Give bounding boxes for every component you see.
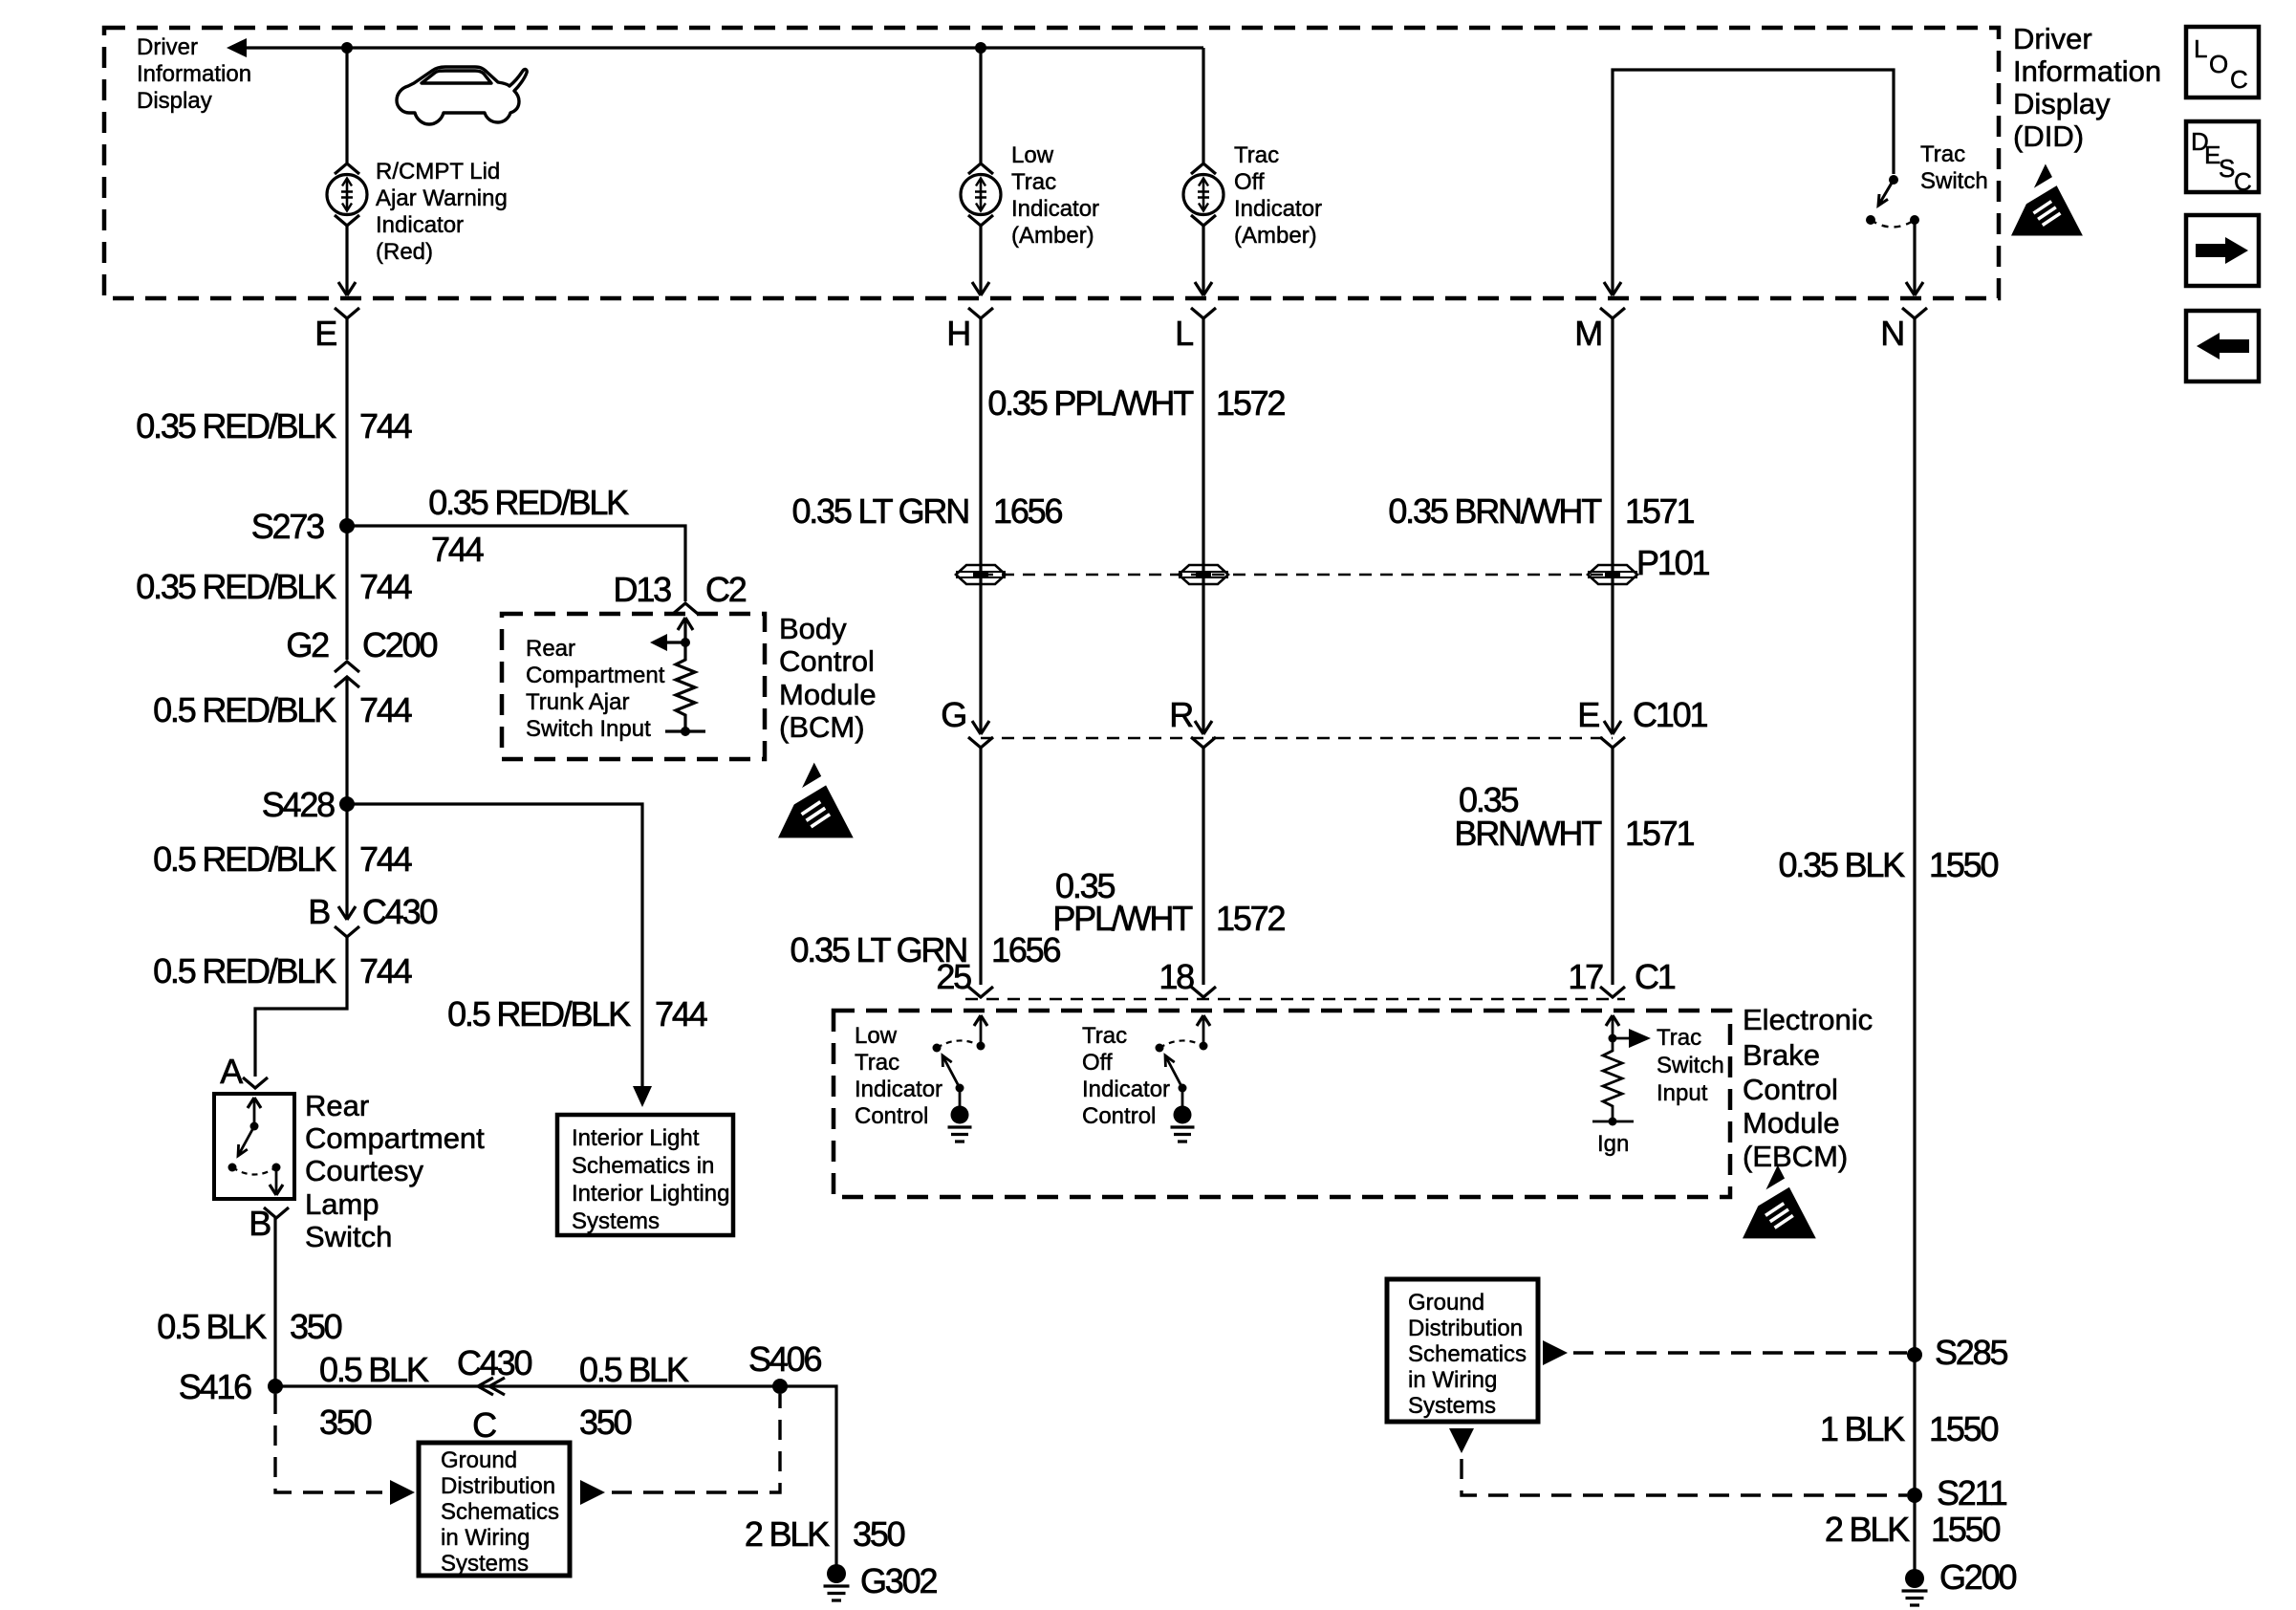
svg-text:744: 744 [359,839,412,879]
svg-text:Systems: Systems [572,1208,660,1234]
svg-text:L: L [1175,314,1193,353]
svg-text:Low: Low [1011,142,1054,168]
indicator lamp R/CMPT Lid Ajar Warning Indicator (Red) [327,175,367,215]
wire: indicator to DID box bottom [345,226,348,295]
svg-text:Control: Control [855,1103,928,1129]
svg-text:744: 744 [359,406,412,446]
svg-text:Lamp: Lamp [305,1187,379,1221]
label 0.35 RED/BLK 744 (branch) [428,483,629,569]
label Trac Switch Input [1657,1025,1724,1106]
splice S416 [268,1379,283,1394]
label 0.35 LT GRN 1656 [791,491,1062,531]
svg-text:Interior Light: Interior Light [572,1125,700,1151]
splice S428 [339,796,355,812]
svg-text:G200: G200 [1939,1557,2016,1597]
svg-text:Indicator: Indicator [376,212,464,238]
svg-text:744: 744 [359,690,412,729]
node: bus junction at E wire [341,42,353,54]
arrowhead left on bus [227,38,247,57]
svg-text:Trunk Ajar: Trunk Ajar [526,689,629,715]
svg-text:18: 18 [1159,957,1194,996]
dashed ref: box to S285 [1543,1340,1568,1365]
svg-text:C430: C430 [457,1343,531,1382]
wire: C200 to S428 [345,677,348,804]
svg-text:0.5 BLK: 0.5 BLK [579,1350,689,1389]
switch dashed throw arc [232,1167,276,1175]
svg-text:(Amber): (Amber) [1011,223,1094,249]
svg-text:Display: Display [2013,87,2111,120]
svg-text:Ign: Ign [1597,1131,1629,1157]
svg-text:N: N [1880,314,1903,353]
splice S211 [1907,1488,1922,1503]
svg-text:Trac: Trac [1920,141,1965,167]
svg-text:350: 350 [290,1307,342,1346]
DESC box [2186,121,2259,196]
connector pin M at DID [1600,308,1625,318]
svg-text:Ground: Ground [441,1447,517,1473]
label 0.5 RED/BLK 744 (branch wire) [447,994,707,1033]
car icon (trunk ajar) [397,67,527,124]
svg-text:(EBCM): (EBCM) [1743,1140,1848,1173]
svg-text:A: A [220,1052,243,1091]
svg-text:350: 350 [853,1514,905,1554]
svg-text:0.5 RED/BLK: 0.5 RED/BLK [153,951,336,990]
Interior Light Schematics reference box [557,1115,733,1235]
svg-text:350: 350 [579,1403,632,1442]
svg-text:S273: S273 [251,507,324,546]
ESD symbol BCM [776,763,854,838]
svg-text:C101: C101 [1633,695,1707,734]
label 0.35 BRN/WHT 1571 (lower) [1454,780,1694,853]
svg-text:0.5 BLK: 0.5 BLK [157,1307,267,1346]
wire: S428 down to C430 [345,804,348,920]
svg-text:(DID): (DID) [2013,120,2084,153]
wire: C430 to courtesy lamp switch pin A [255,937,347,1077]
dashed pass-through line [981,574,1613,577]
Driver Information Display (DID) module box [104,28,1999,298]
LOC box [2186,27,2259,98]
svg-text:E: E [1577,695,1599,734]
svg-text:Switch Input: Switch Input [526,716,651,742]
label Trac Switch [1920,141,1988,194]
ground G200 [1905,1569,1924,1588]
wire: H below C101 [979,748,982,985]
svg-text:Distribution: Distribution [1408,1316,1523,1341]
svg-text:1656: 1656 [991,930,1060,969]
svg-text:in Wiring: in Wiring [1408,1367,1497,1393]
svg-text:1550: 1550 [1931,1510,2000,1549]
label 0.5 RED/BLK 744 (row5) [153,951,412,990]
wire: M vertical [1611,318,1614,734]
svg-text:in Wiring: in Wiring [441,1525,530,1551]
svg-text:1571: 1571 [1625,814,1694,853]
label 0.35 BLK 1550 [1778,845,1998,884]
connector C430 pin C (inline) [478,1378,505,1395]
svg-text:Body: Body [779,612,847,645]
svg-text:0.5 RED/BLK: 0.5 RED/BLK [153,839,336,879]
label Rear Compartment Courtesy Lamp Switch [305,1089,485,1253]
svg-text:Trac: Trac [1657,1025,1701,1051]
svg-text:S: S [2219,154,2235,183]
svg-text:S211: S211 [1937,1473,2007,1512]
switch output arrow down [275,1167,278,1193]
wire: H vertical connector to EBCM [979,318,982,734]
BCM internal node [681,638,690,647]
svg-text:Trac: Trac [1234,142,1279,168]
svg-text:Switch: Switch [1657,1053,1724,1078]
label 0.35 LT GRN 1656 (lower) [790,930,1060,969]
connector pin E at DID [335,308,359,318]
forward arrow box [2186,215,2259,286]
svg-text:Rear: Rear [526,636,575,662]
Rear Compartment Courtesy Lamp Switch box [214,1094,294,1199]
svg-text:1550: 1550 [1929,845,1998,884]
svg-text:0.35 RED/BLK: 0.35 RED/BLK [136,406,336,446]
wire: indicator to DID box bottom [1202,226,1204,295]
wire: S273 branch to BCM C2 [347,526,685,601]
svg-text:Information: Information [137,61,251,87]
svg-text:Trac: Trac [1011,169,1056,195]
pins 25 18 17 C1 [936,957,1675,996]
connector pin A [243,1077,268,1088]
BCM internal arrow left [663,641,685,643]
svg-text:0.5 RED/BLK: 0.5 RED/BLK [153,690,336,729]
switch fixed contact arrow up [253,1099,256,1126]
connector C200 pin G2 [335,662,359,672]
trac switch blade (open) [1878,180,1894,206]
connector pin H at DID [968,308,993,318]
svg-text:Compartment: Compartment [526,663,665,688]
splice S273 [339,518,355,533]
EBCM trac off indicator control switch [1202,1017,1205,1046]
svg-text:Indicator: Indicator [1234,196,1322,222]
svg-text:C2: C2 [705,570,747,609]
svg-text:744: 744 [655,994,707,1033]
svg-text:Information: Information [2013,54,2161,88]
connector chevron above indicator [335,163,359,174]
EBCM low trac indicator control switch [980,1017,983,1046]
svg-text:C: C [2230,65,2248,94]
svg-text:S416: S416 [179,1367,251,1406]
svg-text:R: R [1169,695,1193,734]
Electronic Brake Control Module (EBCM) box [834,1011,1730,1197]
svg-text:(Amber): (Amber) [1234,223,1317,249]
connector D13 C2 [673,603,698,614]
connector pin B below switch [264,1207,289,1218]
grommet L [1179,565,1228,584]
svg-text:350: 350 [319,1403,372,1442]
svg-text:744: 744 [359,951,412,990]
svg-text:1571: 1571 [1625,491,1694,531]
connector C101 row [941,695,1707,734]
svg-text:Compartment: Compartment [305,1121,485,1155]
svg-text:Systems: Systems [441,1551,529,1577]
svg-text:Courtesy: Courtesy [305,1154,424,1187]
svg-text:C: C [472,1405,496,1445]
svg-text:Switch: Switch [305,1220,392,1253]
svg-text:0.5 RED/BLK: 0.5 RED/BLK [447,994,631,1033]
svg-text:B: B [249,1204,271,1243]
svg-text:0.35 RED/BLK: 0.35 RED/BLK [136,567,336,606]
svg-text:1 BLK: 1 BLK [1820,1409,1905,1448]
svg-text:Trac: Trac [1082,1023,1127,1049]
svg-text:744: 744 [359,567,412,606]
svg-text:1550: 1550 [1929,1409,1998,1448]
Body Control Module (BCM) box [502,614,765,759]
wire: E S273 to C200 [345,526,348,660]
label Body Control Module (BCM) [779,612,877,744]
svg-text:Distribution: Distribution [441,1473,555,1499]
svg-text:Switch: Switch [1920,168,1988,194]
wire: switch B to S416 [273,1218,276,1386]
svg-text:Module: Module [779,678,877,711]
svg-text:Display: Display [137,88,212,114]
svg-text:2 BLK: 2 BLK [1825,1510,1910,1549]
svg-text:Trac: Trac [855,1050,899,1076]
svg-text:0.5 BLK: 0.5 BLK [319,1350,429,1389]
svg-text:B: B [308,892,330,931]
dashed ref: box to S211 [1449,1428,1474,1453]
svg-text:Rear: Rear [305,1089,369,1122]
wire: indicator to DID box bottom [979,226,982,295]
label 0.5 BLK 350 (right seg) [579,1350,689,1442]
label Electronic Brake Control Module (EBCM) [1743,1003,1873,1173]
wire: L below C101 [1202,748,1204,985]
label 0.35 PPL/WHT 1572 (lower) [1052,866,1285,938]
resistor trac switch input [1603,1038,1622,1121]
EBCM trac switch input [1612,1017,1614,1038]
svg-text:C: C [2234,167,2252,196]
wire: L vertical [1202,318,1204,734]
svg-text:17: 17 [1568,957,1603,996]
svg-text:Off: Off [1234,169,1265,195]
back arrow box [2186,311,2259,381]
svg-text:Interior Lighting: Interior Lighting [572,1181,729,1207]
svg-text:Driver: Driver [137,34,198,60]
svg-text:Indicator: Indicator [1011,196,1099,222]
svg-text:O: O [2209,50,2228,78]
label R/CMPT Lid Ajar Warning Indicator (Red) [376,159,508,265]
grommet P101 [1588,565,1637,584]
label 0.35 BRN/WHT 1571 [1388,491,1694,531]
svg-text:Indicator: Indicator [855,1077,942,1102]
svg-text:Schematics in: Schematics in [572,1153,714,1179]
switch blade [238,1126,254,1156]
grommet H [956,565,1006,584]
wire: N vertical DID to G200 [1913,318,1916,1571]
svg-text:BRN/WHT: BRN/WHT [1454,814,1602,853]
svg-text:1572: 1572 [1216,899,1285,938]
label Trac Off Indicator Control [1082,1023,1170,1129]
svg-text:Control: Control [779,644,875,678]
label 2 BLK 1550 [1825,1510,2001,1549]
svg-text:Module: Module [1743,1106,1840,1140]
svg-text:Input: Input [1657,1080,1708,1106]
svg-text:0.35 LT GRN: 0.35 LT GRN [791,491,968,531]
wire: E drop from bus to indicator [345,48,348,163]
ESD symbol DID [2009,164,2083,236]
node: bus junction at H wire [975,42,986,54]
svg-text:0.35 BLK: 0.35 BLK [1778,845,1905,884]
connector C430 pin B [338,906,356,920]
label 0.5 RED/BLK 744 (row4) [153,839,412,879]
label 2 BLK 350 [745,1514,905,1554]
wire: S428 branch to interior light ref [347,804,642,1090]
svg-text:G302: G302 [860,1561,937,1600]
wire: H drop from bus to indicator [979,48,982,163]
svg-text:Driver: Driver [2013,22,2092,55]
resistor Rear Compartment Trunk Ajar Switch Input [676,642,695,731]
label Low Trac Indicator Control [855,1023,942,1129]
svg-text:Off: Off [1082,1050,1113,1076]
dashed ref: S416 to ground distribution box [275,1394,382,1492]
svg-text:Low: Low [855,1023,898,1049]
svg-text:G: G [941,695,965,734]
wire: E main vertical (connector to S273) [345,318,348,526]
label 0.35 RED/BLK 744 [136,406,411,446]
splice S406 [772,1379,788,1394]
ground G302 [827,1564,846,1583]
svg-text:S428: S428 [262,785,335,824]
Ground Distribution box (left) [419,1443,570,1576]
svg-text:744: 744 [431,530,484,569]
dashed ref: box to S406 [580,1480,605,1505]
label 0.5 BLK 350 (left seg) [319,1350,429,1442]
svg-text:D13: D13 [614,570,672,609]
svg-text:Control: Control [1082,1103,1156,1129]
BCM input arrow up [683,620,686,642]
label Rear Compartment Trunk Ajar Switch Input [526,636,665,742]
connector pin L at DID [1191,308,1216,318]
svg-text:L: L [2194,34,2207,63]
connector pin N at DID [1902,308,1927,318]
svg-text:0.35 BRN/WHT: 0.35 BRN/WHT [1388,491,1602,531]
label 0.5 BLK 350 [157,1307,341,1346]
label 0.35 PPL/WHT 1572 [987,383,1285,423]
svg-text:S406: S406 [748,1339,821,1379]
svg-text:Electronic: Electronic [1743,1003,1873,1036]
indicator lamp Low Trac Indicator (Amber) [961,175,1001,215]
svg-text:2 BLK: 2 BLK [745,1514,830,1554]
label Trac Off Indicator (Amber) [1234,142,1322,249]
trac switch: fixed contact [1889,175,1898,185]
svg-text:Ajar Warning: Ajar Warning [376,185,508,211]
svg-text:Ground: Ground [1408,1290,1484,1316]
wire: L drop from bus to indicator [1202,48,1204,163]
svg-text:S285: S285 [1935,1333,2007,1372]
svg-text:PPL/WHT: PPL/WHT [1052,899,1193,938]
svg-text:1572: 1572 [1216,383,1285,423]
svg-text:0.35 RED/BLK: 0.35 RED/BLK [428,483,629,522]
splice S285 [1907,1347,1922,1362]
svg-text:C200: C200 [362,625,437,664]
connector C1 dashed row [965,998,1625,1001]
svg-text:H: H [946,314,969,353]
svg-text:Control: Control [1743,1073,1838,1106]
DID inside label [137,34,251,114]
label 0.5 RED/BLK 744 (row3) [153,690,412,729]
svg-text:Schematics: Schematics [441,1499,559,1525]
svg-text:1656: 1656 [993,491,1062,531]
svg-text:C1: C1 [1635,957,1676,996]
wire: M riser and top run to trac switch [1613,70,1894,295]
svg-text:Schematics: Schematics [1408,1341,1527,1367]
wire: M below C101 [1611,748,1614,985]
svg-text:0.35 PPL/WHT: 0.35 PPL/WHT [987,383,1194,423]
svg-text:P101: P101 [1636,543,1709,582]
svg-text:Brake: Brake [1743,1038,1820,1072]
wire: N drop from trac switch to DID bottom [1913,220,1916,295]
indicator lamp Trac Off Indicator (Amber) [1183,175,1224,215]
label 1 BLK 1550 [1820,1409,1999,1448]
ESD symbol EBCM [1741,1165,1816,1239]
connector chevron below indicator [335,215,359,226]
svg-text:E: E [314,314,336,353]
label 0.35 RED/BLK 744 (row2) [136,567,411,606]
label Low Trac Indicator (Amber) [1011,142,1099,249]
svg-text:M: M [1574,314,1601,353]
wire: DID supply bus [241,46,1203,49]
svg-text:(Red): (Red) [376,239,433,265]
label Driver Information Display (DID) [2013,22,2161,153]
svg-text:Systems: Systems [1408,1393,1496,1419]
svg-text:R/CMPT Lid: R/CMPT Lid [376,159,500,185]
wire: S416 to S406 to G302 drop [275,1386,836,1568]
svg-text:(BCM): (BCM) [779,710,865,744]
svg-text:Indicator: Indicator [1082,1077,1170,1102]
Ground Distribution box (right) [1387,1279,1538,1422]
trac switch dashed throw arc [1871,220,1915,228]
svg-text:25: 25 [936,957,971,996]
svg-text:G2: G2 [286,625,329,664]
svg-text:C430: C430 [362,892,437,931]
